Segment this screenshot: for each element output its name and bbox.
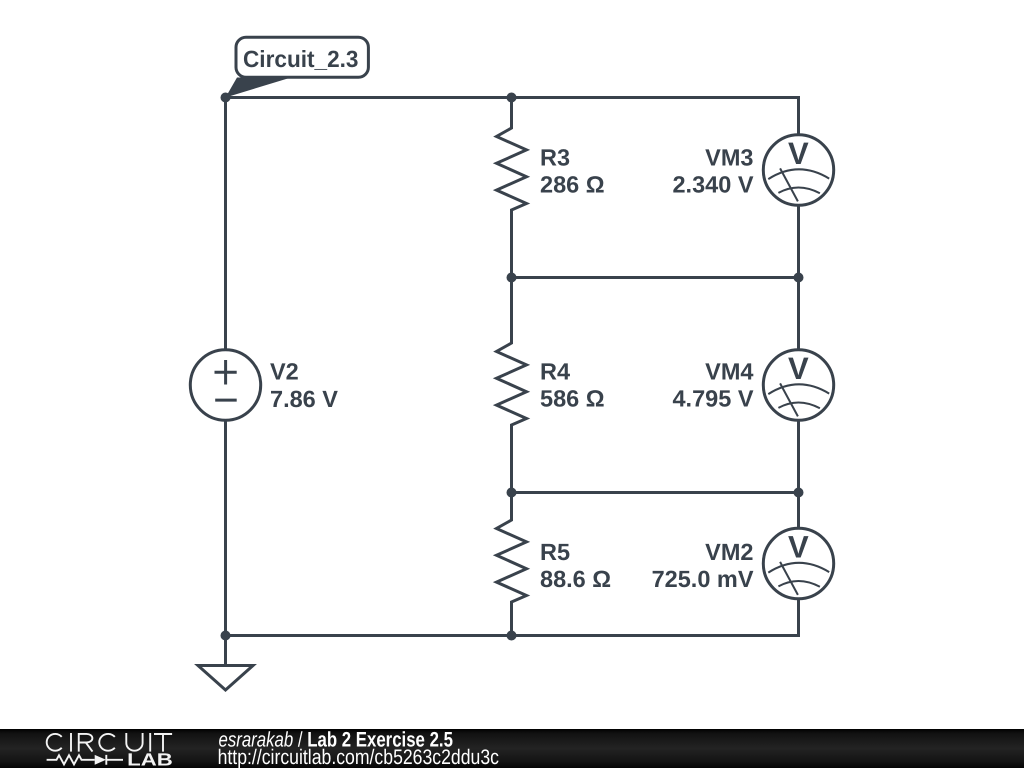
wire bottom rail bbox=[226, 634, 799, 637]
svg-text:88.6 Ω: 88.6 Ω bbox=[540, 566, 611, 592]
resistor R5 bbox=[497, 493, 527, 636]
svg-text:R3: R3 bbox=[540, 145, 570, 171]
voltmeter VM3 bbox=[763, 135, 833, 205]
footer bar bbox=[0, 729, 1024, 768]
footer url line bbox=[218, 746, 499, 768]
node junction dot row1-right bbox=[794, 273, 804, 283]
R3 value label bbox=[540, 145, 605, 198]
ground bbox=[198, 636, 253, 691]
wire left column bbox=[224, 98, 227, 636]
svg-text:7.86 V: 7.86 V bbox=[270, 386, 338, 412]
CircuitLab logo LAB bbox=[127, 750, 173, 768]
svg-text:VM2: VM2 bbox=[705, 539, 753, 565]
svg-text:V: V bbox=[788, 136, 809, 171]
callout Circuit_2.3 bbox=[226, 37, 369, 97]
V2 value label bbox=[270, 359, 338, 413]
footer title line bbox=[219, 729, 454, 752]
VM2 value label bbox=[652, 539, 754, 592]
resistor R3 bbox=[497, 98, 527, 278]
svg-text:R4: R4 bbox=[540, 359, 570, 385]
VM4 value label bbox=[672, 359, 753, 412]
voltmeter VM2 bbox=[763, 528, 833, 598]
node junction dot top-middle bbox=[507, 93, 517, 103]
svg-text:V: V bbox=[788, 530, 809, 565]
node junction dot top-left bbox=[221, 93, 231, 103]
CircuitLab logo resistor-diode line bbox=[47, 755, 123, 765]
svg-text:586 Ω: 586 Ω bbox=[540, 386, 605, 412]
svg-text:http://circuitlab.com/cb5263c2: http://circuitlab.com/cb5263c2ddu3c bbox=[218, 746, 499, 768]
node junction dot bottom-middle bbox=[507, 631, 517, 641]
svg-text:V2: V2 bbox=[270, 359, 299, 385]
svg-text:725.0 mV: 725.0 mV bbox=[652, 566, 754, 592]
R5 value label bbox=[540, 539, 611, 592]
node junction dot row2-middle bbox=[507, 488, 517, 498]
wire top rail bbox=[226, 96, 799, 99]
R4 value label bbox=[540, 359, 605, 412]
wire node row 1 bbox=[512, 276, 799, 279]
voltmeter VM4 bbox=[763, 350, 833, 420]
svg-text:286 Ω: 286 Ω bbox=[540, 172, 605, 198]
svg-text:R5: R5 bbox=[540, 539, 570, 565]
node junction dot row2-right bbox=[794, 488, 804, 498]
resistor R4 bbox=[497, 278, 527, 493]
svg-text:Circuit_2.3: Circuit_2.3 bbox=[243, 46, 359, 72]
svg-text:2.340 V: 2.340 V bbox=[672, 172, 753, 198]
node junction dot bottom-left bbox=[221, 631, 231, 641]
node junction dot row1-middle bbox=[507, 273, 517, 283]
VM3 value label bbox=[672, 145, 753, 198]
wire node row 2 bbox=[512, 491, 799, 494]
svg-text:VM3: VM3 bbox=[705, 145, 753, 171]
svg-text:LAB: LAB bbox=[127, 750, 173, 768]
CircuitLab logo CIRCUIT bbox=[47, 733, 172, 752]
wire right column bbox=[797, 98, 800, 636]
svg-text:V: V bbox=[788, 351, 809, 386]
svg-text:4.795 V: 4.795 V bbox=[672, 386, 753, 412]
voltage source V2 bbox=[190, 350, 260, 420]
svg-text:VM4: VM4 bbox=[705, 359, 753, 385]
